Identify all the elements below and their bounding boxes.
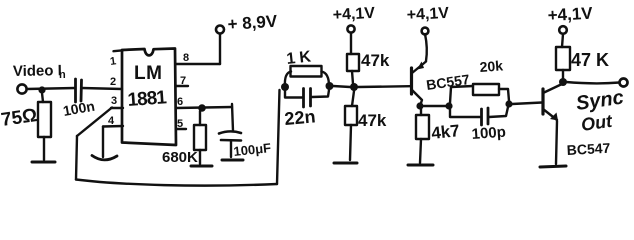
transistor Q2 BC547	[543, 84, 562, 164]
node A junction	[38, 86, 45, 93]
label 680k	[162, 149, 198, 166]
svg-text:4k7: 4k7	[430, 121, 460, 143]
label +4,1V second	[406, 5, 449, 24]
input terminal Video In	[17, 84, 26, 93]
resistor 1k	[285, 66, 329, 87]
ground 680k	[191, 165, 212, 168]
label 1K	[286, 48, 316, 68]
svg-text:3: 3	[111, 95, 117, 107]
label 22n	[284, 106, 317, 129]
node D junction	[326, 82, 334, 90]
svg-text:100μF: 100μF	[233, 140, 272, 159]
node C junction	[281, 83, 289, 91]
label + 8,9V	[227, 12, 278, 34]
ground 100µF	[222, 159, 243, 162]
svg-text:+4,1V: +4,1V	[332, 5, 375, 24]
wire pin 3 loop to node C	[76, 90, 280, 186]
resistor 4k7	[416, 109, 429, 163]
IC U1 LM1881	[122, 49, 176, 146]
svg-text:7: 7	[180, 75, 186, 87]
capacitor 100µF	[219, 104, 241, 157]
label BC557	[425, 71, 471, 93]
node H junction	[505, 100, 512, 107]
svg-text:8: 8	[183, 52, 189, 64]
wire node F to node G	[424, 105, 449, 107]
label LM 1881	[127, 63, 168, 111]
resistor 47k lower	[345, 91, 357, 160]
svg-text:47 K: 47 K	[571, 50, 609, 70]
supply terminal +4,1V first	[347, 25, 354, 54]
wire input to node A	[27, 88, 75, 89]
ground divider	[334, 162, 357, 165]
label 75Ω	[0, 105, 39, 131]
node G junction	[445, 102, 452, 109]
pin 5	[176, 118, 186, 130]
wire 100n to pin 2	[82, 88, 122, 89]
svg-text:+4,1V: +4,1V	[406, 5, 449, 24]
resistor 75Ω	[38, 93, 51, 160]
supply terminal +8,9V	[216, 26, 224, 65]
svg-text:Sync: Sync	[575, 87, 625, 115]
label Sync Out	[575, 87, 625, 135]
pin 7	[176, 75, 188, 87]
svg-text:+ 8,9V: + 8,9V	[227, 12, 278, 34]
wire node D to divider node	[333, 86, 350, 87]
wire node H to Q2 base	[512, 103, 542, 105]
ground Q2 emitter	[540, 166, 566, 167]
svg-text:4: 4	[108, 115, 115, 127]
svg-text:680K: 680K	[162, 149, 198, 166]
supply terminal +4,1V second	[422, 28, 429, 61]
svg-text:1881: 1881	[127, 87, 168, 111]
label 100p	[471, 124, 506, 143]
node E divider junction	[350, 83, 358, 91]
supply terminal +4,1V third	[559, 26, 567, 47]
pin 8	[176, 52, 220, 64]
label 4k7	[430, 121, 460, 143]
svg-text:47k: 47k	[361, 51, 390, 70]
pin 2	[110, 76, 116, 88]
svg-text:100n: 100n	[62, 98, 96, 119]
resistor 47K pull-up	[556, 47, 570, 78]
label BC547	[566, 140, 611, 158]
label +4,1V first	[332, 5, 375, 24]
resistor 680k	[194, 111, 206, 164]
output terminal Sync Out	[620, 79, 628, 87]
label 20k	[479, 57, 504, 75]
wire node E to Q1 base	[358, 85, 410, 88]
svg-text:1: 1	[109, 55, 117, 68]
svg-text:Out: Out	[580, 111, 614, 135]
svg-text:1K: 1K	[286, 48, 316, 68]
svg-text:5: 5	[177, 118, 183, 130]
capacitor 100n	[76, 79, 82, 102]
svg-text:22n: 22n	[284, 106, 317, 129]
label 47 K	[571, 50, 609, 70]
transistor Q1 BC557	[412, 62, 427, 104]
svg-text:47k: 47k	[358, 111, 387, 130]
node I output junction	[559, 78, 567, 86]
label 47k upper	[361, 51, 390, 70]
pin 4	[103, 115, 123, 157]
svg-text:2: 2	[110, 76, 116, 88]
node F collector junction	[416, 102, 423, 109]
capacitor 100p	[450, 107, 508, 125]
svg-text:6: 6	[177, 96, 183, 108]
ground 75Ω	[32, 161, 55, 164]
label Video In	[13, 62, 66, 81]
pin 6	[176, 96, 232, 108]
label 100n	[62, 98, 96, 119]
wire output	[566, 82, 620, 83]
label +4,1V third	[547, 4, 593, 25]
svg-text:Video I: Video I	[13, 62, 62, 80]
svg-text:n: n	[59, 69, 66, 81]
svg-text:+4,1V: +4,1V	[547, 4, 593, 25]
resistor 20k	[450, 84, 509, 103]
svg-text:20k: 20k	[479, 57, 504, 75]
svg-text:BC547: BC547	[566, 140, 611, 158]
node B junction pin6	[198, 104, 206, 112]
svg-text:75Ω: 75Ω	[0, 105, 39, 131]
svg-text:BC557: BC557	[425, 71, 471, 93]
pin 1	[109, 50, 123, 68]
label 47k lower	[358, 111, 387, 130]
svg-text:100p: 100p	[471, 124, 506, 143]
pin 3	[111, 95, 123, 108]
label 100µF	[233, 140, 272, 159]
capacitor 22n	[285, 89, 329, 108]
svg-text:LM: LM	[134, 63, 162, 84]
ground pin 4	[92, 156, 117, 160]
resistor 47k upper	[347, 54, 359, 84]
ground 4k7	[408, 164, 433, 167]
